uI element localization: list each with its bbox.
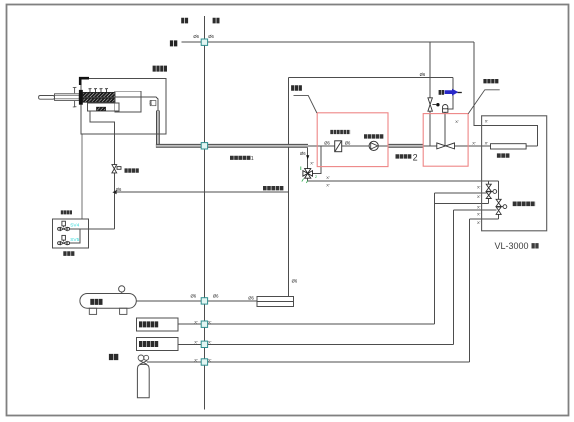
wire: valve to red box 2 pipe bbox=[429, 111, 431, 146]
probe enclosure bold corner bbox=[80, 78, 89, 85]
3-way cross valve bbox=[303, 169, 313, 179]
wire: air to valve1 waist bbox=[434, 192, 486, 194]
svg-text:X': X' bbox=[477, 220, 481, 225]
red enclosure box 2 (heated module) bbox=[423, 114, 468, 167]
H2 generator box bbox=[137, 338, 178, 351]
probe tube tip bbox=[39, 96, 55, 100]
node: dot bbox=[436, 103, 439, 106]
wire: valve pair1 top stem bbox=[488, 181, 490, 184]
wire: cal gas into analyzer bbox=[470, 218, 499, 220]
label: heat traced line 1 bbox=[230, 156, 251, 160]
sampling probe assembly bbox=[39, 78, 167, 134]
svg-text:Ø6: Ø6 bbox=[345, 140, 351, 145]
probe flange (solid) bbox=[79, 90, 83, 105]
label: cabinet outside bbox=[181, 18, 188, 24]
wire: x430 drop from vent line to valve bbox=[429, 42, 431, 98]
svg-text:X': X' bbox=[326, 175, 330, 180]
heat-traced pipe 1 (horizontal) bbox=[156, 144, 308, 148]
label: instrument air (tank) bbox=[90, 299, 103, 305]
instrument air tank bbox=[80, 286, 136, 315]
wire: vent drop to analyzer loop bbox=[474, 42, 537, 146]
svg-text:Ø6: Ø6 bbox=[149, 100, 153, 105]
svg-text:X': X' bbox=[326, 183, 330, 188]
svg-text:Ø6: Ø6 bbox=[191, 294, 197, 299]
air filter/regulator rect bbox=[257, 296, 294, 306]
arrow on 3way valve stem bbox=[306, 155, 309, 159]
wire: red box2 inner line bbox=[423, 145, 437, 147]
wire: SV box outlet bbox=[88, 228, 114, 230]
wire: main cabinet divider vertical bbox=[203, 16, 205, 410]
probe enclosure box bbox=[81, 79, 166, 134]
label: cal gas bbox=[109, 354, 119, 360]
wire: air riser x288 bbox=[287, 77, 289, 296]
wire: H2 line into analyzer bbox=[454, 209, 497, 211]
wire: valve2 bottom stem bbox=[498, 214, 500, 219]
wire: instrument air inlet line bbox=[114, 191, 288, 193]
probe filter hatch upper bbox=[83, 92, 115, 97]
analyzer box VL-3000 bbox=[482, 116, 547, 231]
heat-traced pipe 2 bbox=[388, 144, 423, 148]
red enclosure box 1 (heater box) bbox=[317, 113, 388, 167]
label: heater box bbox=[291, 85, 302, 91]
red box2 butterfly valve bbox=[437, 143, 455, 149]
svg-text:Ø6: Ø6 bbox=[213, 294, 219, 299]
svg-text:SV5: SV5 bbox=[70, 237, 79, 243]
solenoid valve box bbox=[53, 219, 89, 248]
svg-text:X': X' bbox=[194, 340, 198, 345]
callout: heated module label leader bbox=[468, 90, 500, 114]
wire: filter cylinder drop into red box 2 bbox=[444, 112, 446, 146]
wire: 3way valve branch inside red box1 bbox=[313, 146, 321, 174]
wire: filter to pump bbox=[342, 145, 369, 147]
valve above red box2 bbox=[428, 98, 436, 111]
wire: pump to box edge bbox=[378, 145, 388, 147]
svg-text:Ø6: Ø6 bbox=[292, 279, 298, 284]
probe inner chamber B bbox=[87, 103, 119, 111]
wire: cal gas riser to analyzer bbox=[469, 219, 471, 362]
label: heated module bbox=[483, 79, 498, 83]
svg-text:X': X' bbox=[310, 160, 314, 165]
air generator box bbox=[137, 318, 178, 331]
svg-text:Ø6: Ø6 bbox=[193, 34, 199, 39]
label: internal cal valve bbox=[513, 202, 536, 207]
label: sampling probe bbox=[153, 66, 167, 72]
label: probe blowback bbox=[125, 168, 139, 172]
heat-traced pipe 1 (vertical from probe) bbox=[156, 111, 423, 146]
label: sample loop bbox=[497, 153, 510, 157]
wire: SV4 outlet bbox=[69, 228, 88, 230]
valve: probe blowback valve bbox=[112, 165, 121, 173]
sample loop bbox=[491, 144, 527, 149]
svg-text:X': X' bbox=[472, 140, 476, 145]
probe filter hatch lower bbox=[83, 98, 115, 102]
wire: tank to filter rect bbox=[136, 300, 256, 302]
wire: air generator line bbox=[178, 323, 434, 325]
wire: probe bore line to elbow bbox=[115, 97, 158, 112]
wire: sample line to analyzer valves bbox=[308, 178, 499, 181]
wire: probe internal blowback tubing bbox=[90, 111, 114, 165]
node: junction squares on main vertical bbox=[201, 39, 207, 365]
label: H2 generator bbox=[139, 341, 159, 347]
heater box filter bbox=[335, 141, 342, 152]
svg-text:X': X' bbox=[208, 340, 212, 345]
svg-text:X': X' bbox=[455, 119, 459, 124]
wire: cal gas line bbox=[147, 361, 470, 363]
wire: air riser to analyzer bbox=[433, 193, 435, 324]
svg-text:X': X' bbox=[477, 211, 481, 216]
small heater block in chamber B bbox=[97, 107, 106, 111]
wire: air branch line bbox=[434, 202, 488, 204]
wire: valve pair2 feed down bbox=[498, 181, 500, 199]
wire: instrument air upper line bbox=[288, 76, 453, 78]
svg-text:X': X' bbox=[194, 319, 198, 324]
label: high temp sampling pump bbox=[364, 134, 384, 138]
svg-text:X': X' bbox=[485, 140, 489, 145]
wire: 3way valve top stem bbox=[307, 148, 309, 169]
wire: valve1 bottom stem bbox=[488, 199, 490, 204]
svg-text:X': X' bbox=[208, 357, 212, 362]
wire: SV5 join bbox=[69, 229, 80, 243]
cal gas cylinder bbox=[137, 355, 149, 398]
wire: probe box left edge extension to SV box bbox=[81, 134, 83, 219]
label: heat traced line 2 bbox=[396, 154, 412, 158]
svg-text:VL-3000: VL-3000 bbox=[495, 241, 529, 251]
wire: H2 riser to analyzer bbox=[453, 210, 455, 344]
svg-text:Ø6: Ø6 bbox=[300, 151, 306, 156]
svg-text:1: 1 bbox=[251, 156, 254, 162]
probe wall tick marks bbox=[74, 87, 76, 93]
label: heater box filter bbox=[330, 130, 350, 134]
wire: H2 generator line bbox=[178, 343, 454, 345]
solenoid valve SV5 bbox=[58, 235, 70, 244]
port labels X' bbox=[194, 119, 488, 363]
svg-text:X': X' bbox=[477, 194, 481, 199]
pipe size labels Ø6 bbox=[116, 34, 426, 300]
svg-text:Ø6: Ø6 bbox=[420, 72, 426, 77]
internal cal valve pair 2 bbox=[496, 199, 507, 214]
probe inner chamber A bbox=[115, 91, 142, 112]
svg-text:Ø6: Ø6 bbox=[324, 140, 330, 145]
high temp sampling pump bbox=[369, 141, 378, 150]
internal cal valve pair 1 bbox=[486, 184, 496, 198]
node: air inlet junction arrow bbox=[112, 190, 116, 194]
label: air generator bbox=[139, 321, 159, 327]
boxed vertical pipe label bbox=[150, 101, 156, 106]
wire: probe blowback vertical bbox=[113, 173, 115, 229]
solenoid valve SV4 bbox=[58, 221, 70, 230]
svg-text:2: 2 bbox=[315, 174, 318, 179]
wire: top vent line bbox=[181, 41, 474, 43]
solenoid blue arrow device bbox=[439, 89, 462, 96]
heater winding ticks bbox=[89, 89, 109, 93]
label: filter blowback (above SV box) bbox=[61, 210, 73, 214]
small filter cylinder bbox=[443, 105, 448, 113]
svg-text:2: 2 bbox=[413, 153, 418, 163]
probe tube body bbox=[55, 94, 80, 101]
label: vent bbox=[170, 40, 178, 46]
wire: drop to SV device x453 bbox=[448, 77, 453, 109]
svg-text:SV4: SV4 bbox=[70, 223, 79, 229]
label: cabinet inside bbox=[213, 18, 220, 24]
svg-text:Ø6: Ø6 bbox=[248, 295, 254, 300]
label: instrument air inlet bbox=[263, 186, 284, 190]
label: solenoid (below SV box) bbox=[63, 251, 75, 256]
svg-text:Ø6: Ø6 bbox=[208, 34, 214, 39]
svg-text:X': X' bbox=[485, 119, 489, 124]
svg-text:X': X' bbox=[477, 204, 481, 209]
wire: valve to sample loop bbox=[455, 145, 491, 147]
svg-text:X': X' bbox=[477, 184, 481, 189]
svg-text:X': X' bbox=[194, 357, 198, 362]
wire: red box1 inner line left bbox=[308, 145, 335, 147]
svg-text:Ø6: Ø6 bbox=[116, 187, 122, 192]
callout: heater box label leader bbox=[294, 90, 500, 114]
green port marks bbox=[301, 167, 308, 184]
svg-text:X': X' bbox=[208, 319, 212, 324]
wire: sample loop outlet bbox=[526, 145, 538, 147]
